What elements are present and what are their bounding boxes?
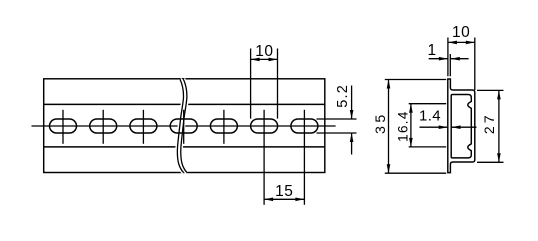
dimension 15 hole pitch: arrows — [264, 198, 273, 202]
hole 4 center tick — [183, 110, 185, 144]
dimension 15 hole pitch: dimension line — [264, 198, 304, 200]
horizontal center line — [32, 125, 336, 127]
dimension 16.4 groove spacing: dimension line — [410, 104, 412, 147]
rail front view outline — [44, 79, 325, 173]
dimension 10 profile depth: extension lines — [447, 38, 449, 77]
dimension 10 slot length: dimension line — [251, 58, 278, 60]
profile outer contour — [448, 79, 475, 173]
svg-text:1: 1 — [427, 42, 436, 59]
dimension 27 channel height: extension lines — [477, 89, 504, 91]
svg-text:35: 35 — [373, 111, 389, 134]
svg-text:10: 10 — [452, 24, 470, 41]
hole 5 center tick — [223, 110, 225, 144]
svg-text:16.4: 16.4 — [396, 110, 411, 141]
dimension 10 profile depth: arrows — [448, 41, 457, 45]
slot hole 4 — [170, 119, 197, 133]
dimension 1 lip thickness: leader lines — [429, 58, 448, 60]
break line left curve — [177, 79, 183, 173]
dimension 16.4 groove spacing: arrows — [409, 104, 413, 113]
dimension 35 overall height: extension lines — [385, 79, 446, 81]
svg-text:5.2: 5.2 — [335, 84, 351, 108]
hole 1 center tick — [62, 110, 64, 144]
slot hole 7 — [291, 119, 318, 133]
slot hole 3 — [130, 119, 157, 133]
dimension 10 slot length: arrows — [251, 58, 260, 62]
dimension 5.2 slot height: arrows — [350, 110, 354, 119]
dimension 1.4 wall thickness: leader lines — [420, 126, 448, 128]
slot hole 6 — [251, 119, 278, 133]
dimension 16.4 groove spacing: extension lines — [409, 103, 447, 105]
dimension 10 profile depth: dimension line — [448, 41, 475, 43]
hole 2 center tick — [102, 110, 104, 144]
hole 6 center tick / extension line for 15 — [263, 110, 265, 205]
profile inner cavity contour — [451, 95, 471, 158]
dimension 1 lip thickness: extension line — [449, 54, 451, 76]
rail bottom fold edge line — [44, 146, 325, 148]
slot hole 2 — [90, 119, 117, 133]
dimension 27 channel height: arrows — [497, 90, 501, 99]
rail top fold edge line — [44, 103, 325, 105]
hole 7 center tick / extension line for 15 — [303, 110, 305, 205]
dimension 5.2 slot height: dimension line segments — [351, 86, 353, 120]
dimension 5.2 slot height: extension lines — [317, 118, 357, 120]
break line halo — [177, 79, 187, 173]
svg-text:10: 10 — [255, 43, 273, 60]
svg-text:1.4: 1.4 — [419, 108, 441, 125]
dimension 27 channel height: dimension line — [498, 90, 500, 162]
svg-text:15: 15 — [275, 183, 293, 200]
break line right curve — [181, 79, 187, 173]
slot hole 1 — [50, 119, 77, 133]
hole 3 center tick — [142, 110, 144, 144]
dimension 1.4 wall thickness: arrows — [439, 125, 448, 129]
dimension 35 overall height: dimension line — [388, 80, 390, 174]
dimension 1 lip thickness: arrows — [439, 57, 448, 61]
dimension 35 overall height: arrows — [387, 80, 391, 89]
slot hole 5 — [210, 119, 237, 133]
dimension 10 slot length: extension lines — [250, 49, 252, 119]
svg-text:27: 27 — [481, 112, 497, 134]
